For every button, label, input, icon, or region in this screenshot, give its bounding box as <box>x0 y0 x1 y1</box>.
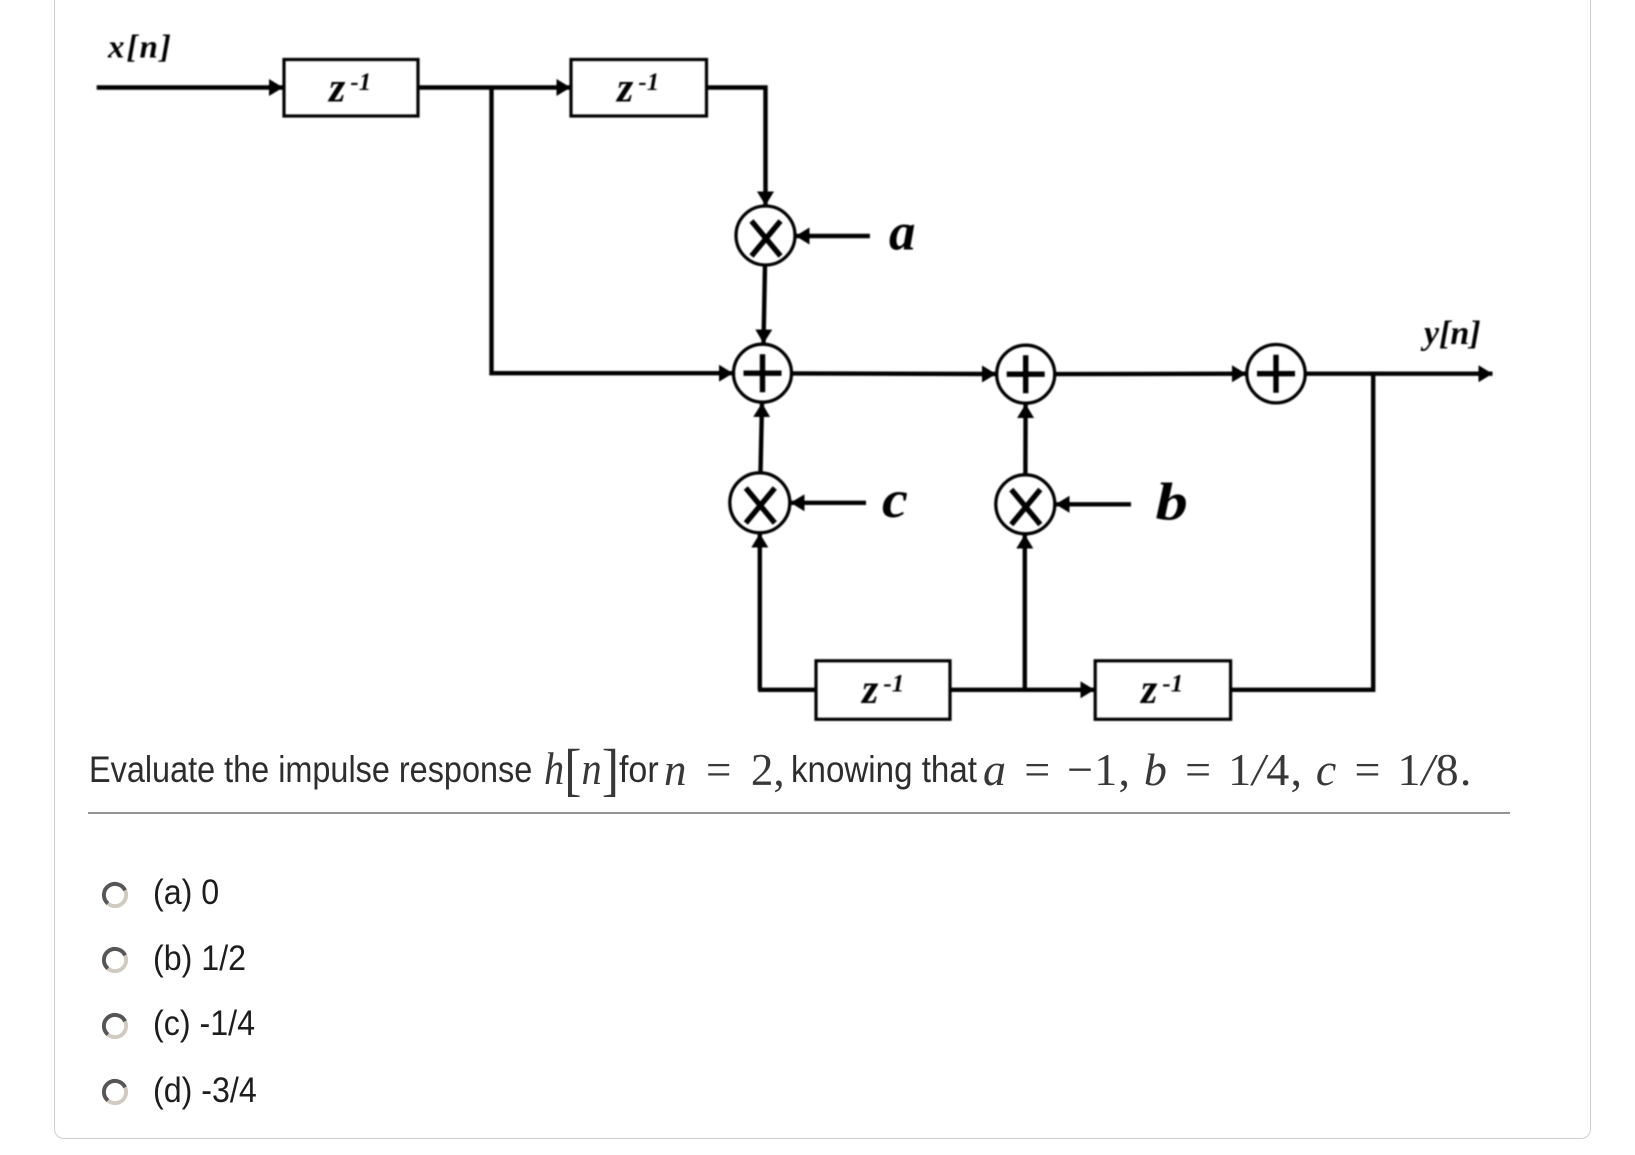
wire box1 to box2 <box>418 85 571 89</box>
svg-text:b: b <box>1156 472 1188 531</box>
adder A3 circle <box>1247 345 1305 403</box>
X glyph Ma <box>752 221 781 256</box>
wire Mc up into A1 <box>761 403 763 473</box>
adder A1 circle <box>734 344 792 402</box>
question text fragments <box>89 750 532 790</box>
wire bottom corner up into Mc <box>758 534 760 690</box>
svg-text:c: c <box>882 470 908 529</box>
wire x[n] input arrow <box>97 85 283 89</box>
X glyph Mb <box>1011 490 1040 525</box>
wire A2 to A3 <box>1055 372 1246 377</box>
wire Ma down to adder A1 <box>764 265 766 344</box>
svg-text:y[n]: y[n] <box>1420 315 1481 352</box>
wire box2 to multiplier Ma <box>707 88 766 206</box>
wire feedback from output down to box D <box>1231 374 1374 690</box>
multiplier Mb circle <box>996 475 1055 534</box>
option c text <box>153 1006 255 1042</box>
wire corner to box C <box>760 688 816 692</box>
wire A1 to A2 <box>792 371 997 376</box>
adder A2 circle <box>997 345 1055 403</box>
wire A3 to output y[n] <box>1305 372 1492 376</box>
wire a coefficient into Ma <box>796 234 870 238</box>
option a text <box>153 875 219 911</box>
multiplier Ma circle <box>736 206 795 265</box>
radio b <box>101 946 129 974</box>
X glyph Mc <box>746 488 775 523</box>
radio a <box>101 881 129 909</box>
option d text <box>153 1073 257 1109</box>
separator <box>88 812 1510 815</box>
delay box z-1 bottom left <box>816 661 950 720</box>
multiplier Mc circle <box>730 473 790 533</box>
plus glyph A3 <box>1257 355 1295 393</box>
wire Mb up into A2 <box>1023 404 1028 475</box>
option b text <box>153 941 246 977</box>
delay box z-1 bottom right <box>1095 661 1230 720</box>
wire junction up into Mb <box>1023 535 1027 690</box>
radio d <box>101 1078 129 1106</box>
svg-text:x[n]: x[n] <box>107 30 173 66</box>
wire b coefficient into Mb <box>1056 502 1132 506</box>
svg-text:a: a <box>889 204 916 262</box>
delay box z-1 second <box>571 60 707 117</box>
wire box C to box D with junction <box>950 688 1095 692</box>
plus glyph A2 <box>1007 355 1045 393</box>
delay box z-1 first <box>284 60 418 117</box>
plus glyph A1 <box>744 354 782 392</box>
wire c coefficient into Mc <box>791 501 867 505</box>
wire branch node down to adder A1 <box>492 88 734 374</box>
radio c <box>101 1012 129 1040</box>
